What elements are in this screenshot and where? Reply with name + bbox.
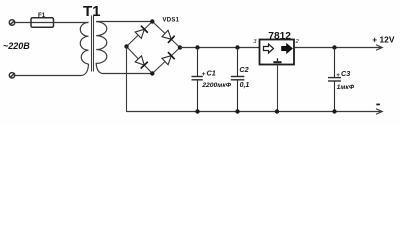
node bridge right (+) — [178, 45, 182, 49]
wire terminal to fuse — [15, 22, 31, 24]
capacitor C3 (polarized) — [328, 48, 341, 113]
svg-text:C1: C1 — [207, 69, 216, 78]
transformer T1 primary winding — [80, 22, 88, 64]
wire + rail (bridge to regulator) — [180, 47, 260, 49]
diode VDS1.4 (bottom-right edge) — [152, 48, 180, 74]
diode VDS1.3 (left-bottom edge) — [127, 47, 153, 74]
bottom rail (minus) — [127, 111, 382, 113]
node bridge bottom (AC) — [150, 71, 154, 75]
voltage regulator U1 7812 — [260, 40, 295, 65]
svg-text:0,1: 0,1 — [240, 82, 250, 89]
svg-text:~220В: ~220В — [3, 41, 30, 51]
node C2 bottom — [235, 109, 239, 113]
transformer T1 core — [92, 16, 94, 72]
label minus output — [376, 104, 380, 106]
svg-text:C2: C2 — [239, 65, 248, 74]
fuse F1 — [31, 18, 54, 28]
node bridge top (AC) — [150, 19, 154, 23]
svg-text:+ 12V: + 12V — [372, 34, 395, 44]
output arrow (solid) — [282, 44, 293, 54]
node bridge left (-) — [124, 44, 128, 48]
capacitor C1 (polarized) — [192, 48, 203, 113]
wire fuse to transformer primary — [54, 22, 89, 24]
node C1 top — [195, 45, 199, 49]
input arrow (outline) — [264, 44, 274, 53]
svg-text:+: + — [202, 71, 206, 78]
wire terminal to primary bottom — [15, 64, 89, 76]
+ output arrowhead — [376, 45, 382, 50]
diode VDS1.1 (left-top edge) — [127, 22, 153, 47]
node C2 top — [235, 45, 239, 49]
terminal X2 (AC input bottom) — [9, 73, 15, 78]
wire + rail (regulator to output) — [294, 47, 382, 49]
minus output arrowhead — [376, 109, 382, 114]
wire bridge minus to bottom rail — [126, 47, 128, 113]
node C3 top — [332, 45, 336, 49]
svg-text:+: + — [336, 72, 340, 79]
wire secondary top lead to bridge — [96, 21, 152, 23]
svg-text:2200мкФ: 2200мкФ — [201, 82, 232, 89]
svg-text:VDS1: VDS1 — [163, 17, 180, 23]
diode VDS1.2 (top-right edge) — [152, 22, 180, 48]
capacitor C2 — [231, 48, 245, 113]
node C1 bottom — [195, 109, 199, 113]
terminal X1 (AC input top) — [9, 20, 15, 25]
internal ground symbol — [277, 58, 279, 61]
svg-text:7812: 7812 — [268, 31, 291, 42]
node C3 bottom — [332, 109, 336, 113]
svg-text:F1: F1 — [38, 12, 46, 19]
node regulator ground bottom — [275, 109, 279, 113]
svg-text:1мкФ: 1мкФ — [337, 84, 355, 91]
wire secondary bottom lead to bridge — [103, 73, 152, 75]
wire regulator ground pin — [277, 65, 279, 113]
transformer T1 secondary winding — [96, 22, 107, 74]
svg-text:C3: C3 — [341, 69, 350, 78]
